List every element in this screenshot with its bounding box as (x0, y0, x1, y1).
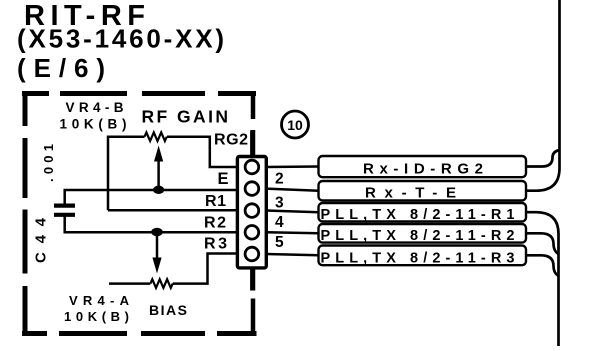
wire label box Rx-T-E (319, 181, 527, 201)
svg-text:Rx-ID-RG2: Rx-ID-RG2 (363, 160, 483, 177)
svg-text:R3: R3 (204, 236, 227, 253)
circled ref 10 (282, 111, 309, 138)
svg-text:10: 10 (287, 117, 303, 133)
svg-text:VR4-B: VR4-B (66, 100, 124, 115)
svg-text:R2: R2 (204, 215, 226, 232)
wire: VR4-A right terminal up to R3 row pin 5 (173, 254, 238, 284)
wire: VR4-B right terminal to pin 1 (RG2) (167, 137, 238, 167)
connector J10 top stub (250, 131, 254, 158)
node: wiper junction on E row (153, 186, 164, 194)
svg-text:E: E (218, 170, 229, 188)
svg-text:RG2: RG2 (214, 132, 248, 149)
wire label box PLL,TX 8/2-11-R1 (319, 203, 527, 222)
wire: E row from C44 top to pin 2 (65, 190, 238, 205)
svg-text:PLL,TX 8/2-11-R3: PLL,TX 8/2-11-R3 (321, 250, 515, 266)
wire box3 to lower cable trunk (526, 212, 559, 346)
wire box5 joins lower trunk (526, 255, 559, 276)
wire label box PLL,TX 8/2-11-R3 (319, 246, 527, 266)
wire: VR4-B left terminal down to R1 row (108, 137, 145, 211)
svg-text:4: 4 (275, 214, 284, 231)
wire label box PLL,TX 8/2-11-R2 (319, 224, 527, 243)
wire pin3 to box3 (266, 211, 319, 213)
wiper arrow VR4-B (157, 158, 160, 190)
svg-text:PLL,TX 8/2-11-R1: PLL,TX 8/2-11-R1 (321, 207, 515, 223)
wiper arrow VR4-A (down) (156, 232, 159, 259)
wire: R1 row (108, 209, 238, 212)
connector pin 4 (245, 226, 259, 240)
wire: VR4-A left terminal (109, 282, 150, 285)
connector J10 bottom stub (250, 267, 254, 291)
connector pin 3 (245, 204, 259, 218)
node: BIAS wiper junction on R2 row (151, 228, 163, 237)
resistor VR4-A (BIAS) (150, 279, 172, 288)
wire box4 joins lower trunk (526, 233, 559, 254)
svg-text:3: 3 (275, 195, 284, 212)
svg-text:2: 2 (275, 171, 284, 188)
connector pin 1 (245, 160, 259, 174)
wire pin1 to box1 (266, 165, 319, 168)
svg-text:BIAS: BIAS (149, 302, 187, 318)
dashed enclosure bottom edge (22, 331, 257, 336)
svg-text:C44: C44 (33, 217, 50, 263)
connector J10 body (237, 157, 266, 268)
dashed enclosure left edge (23, 91, 28, 336)
dashed enclosure right edge (251, 91, 256, 334)
wire label box Rx-ID-RG2 (319, 156, 527, 177)
connector pin 2 (245, 182, 259, 196)
dashed enclosure top edge (22, 91, 256, 96)
wire pin2 to box2 (266, 189, 319, 191)
wire pin4 to box4 (266, 232, 319, 233)
wire pin5 to box5 (266, 254, 319, 255)
svg-text:R1: R1 (205, 193, 226, 210)
connector pin 5 (245, 247, 259, 261)
svg-text:PLL,TX 8/2-11-R2: PLL,TX 8/2-11-R2 (321, 228, 515, 244)
wire: R2 row from C44 bottom to pin 4 (65, 216, 238, 232)
svg-text:5: 5 (275, 234, 284, 251)
wire box2 to upper cable trunk (526, 0, 560, 191)
wire box1 joins upper trunk (526, 150, 560, 167)
resistor VR4-B (RF GAIN) (145, 132, 167, 141)
capacitor C44 (54, 206, 75, 215)
